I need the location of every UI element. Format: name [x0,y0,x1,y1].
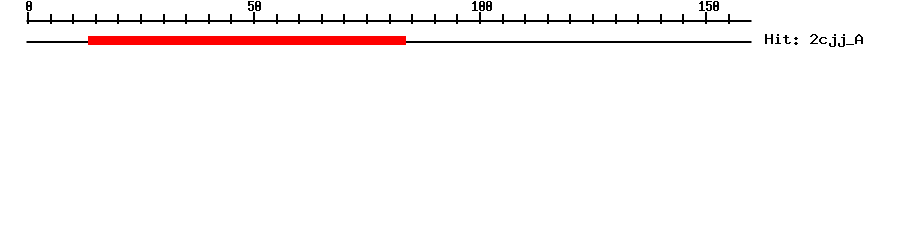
background [0,0,900,60]
ruler axis line [27,20,752,22]
hit bar (red) [88,36,406,45]
ruler label 100 [472,1,492,11]
ruler label 0 [26,1,32,11]
major tick 100 [479,12,481,24]
major tick 50 [253,12,255,24]
hit label "Hit: 2cjj_A" [765,34,863,47]
ruler label 50 [248,1,261,11]
query sequence line [27,41,752,43]
major tick 0 [27,12,29,24]
major tick 150 [705,12,707,24]
minor ticks [50,14,730,24]
ruler label 150 [699,1,719,11]
